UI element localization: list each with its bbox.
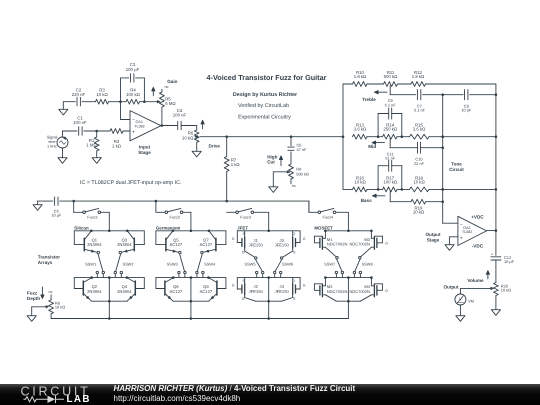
- svg-text:IC = TL082CP dual JFET-input o: IC = TL082CP dual JFET-input op-amp IC.: [80, 180, 182, 186]
- svg-text:500 kΩ: 500 kΩ: [384, 74, 399, 79]
- svg-text:Bass: Bass: [361, 198, 372, 203]
- svg-text:Fuzz3: Fuzz3: [240, 214, 251, 219]
- svg-text:10 kΩ: 10 kΩ: [96, 92, 108, 97]
- svg-text:AC127: AC127: [200, 289, 213, 294]
- svg-text:TL082: TL082: [134, 124, 144, 128]
- svg-text:2N3904: 2N3904: [117, 289, 132, 294]
- svg-text:Depth: Depth: [27, 296, 40, 301]
- svg-text:Fuzz2: Fuzz2: [169, 214, 180, 219]
- svg-text:2N3904: 2N3904: [117, 242, 132, 247]
- svg-text:100 nF: 100 nF: [173, 113, 187, 118]
- svg-text:Germanium: Germanium: [156, 225, 180, 230]
- svg-text:LAB: LAB: [67, 394, 91, 405]
- svg-text:nc: nc: [292, 183, 296, 188]
- svg-text:NDC7002N: NDC7002N: [327, 242, 348, 247]
- svg-text:3.6 kΩ: 3.6 kΩ: [413, 127, 426, 132]
- svg-text:SSW8: SSW8: [362, 262, 373, 267]
- svg-text:10 µF: 10 µF: [504, 259, 515, 264]
- svg-text:Output: Output: [425, 232, 441, 237]
- svg-text:47 nF: 47 nF: [297, 147, 308, 152]
- svg-text:250 kΩ: 250 kΩ: [383, 127, 398, 132]
- svg-text:Drive: Drive: [209, 143, 221, 148]
- svg-text:NDC7002N: NDC7002N: [349, 242, 370, 247]
- svg-text:Circuit: Circuit: [449, 167, 464, 172]
- svg-text:-VDC: -VDC: [472, 243, 484, 248]
- svg-text:10 kΩ: 10 kΩ: [501, 288, 511, 293]
- svg-text:4-Voiced Transistor Fuzz for G: 4-Voiced Transistor Fuzz for Guitar: [207, 73, 327, 82]
- svg-text:Stage: Stage: [138, 150, 151, 155]
- svg-text:220 nF: 220 nF: [72, 92, 86, 97]
- svg-text:+: +: [460, 235, 463, 241]
- svg-text:AC127: AC127: [170, 242, 183, 247]
- svg-text:Transistor: Transistor: [38, 255, 60, 260]
- svg-text:JFET: JFET: [237, 225, 248, 230]
- svg-text:Tone: Tone: [451, 161, 462, 166]
- svg-text:10 kΩ: 10 kΩ: [182, 135, 194, 140]
- svg-text:SSW7: SSW7: [324, 262, 335, 267]
- svg-text:G: G: [232, 284, 235, 288]
- svg-text:1.8 kΩ: 1.8 kΩ: [354, 74, 367, 79]
- svg-text:Fuzz1: Fuzz1: [87, 214, 98, 219]
- svg-text:10 kΩ: 10 kΩ: [413, 210, 425, 215]
- svg-text:Design by Kurtus Richter: Design by Kurtus Richter: [233, 92, 297, 98]
- svg-text:5.1 nF: 5.1 nF: [414, 108, 426, 113]
- svg-text:100 µF: 100 µF: [126, 67, 140, 72]
- svg-text:10 kΩ: 10 kΩ: [413, 179, 425, 184]
- svg-text:G: G: [385, 241, 388, 245]
- svg-text:Fuzz: Fuzz: [27, 290, 38, 295]
- svg-text:Treble: Treble: [362, 97, 376, 102]
- svg-text:51 nF: 51 nF: [385, 156, 396, 161]
- svg-text:nc: nc: [49, 289, 53, 294]
- svg-text:100 kΩ: 100 kΩ: [126, 92, 141, 97]
- svg-text:2N3904: 2N3904: [87, 289, 102, 294]
- svg-text:2N3904: 2N3904: [87, 242, 102, 247]
- svg-text:SSW1: SSW1: [85, 262, 96, 267]
- svg-text:NDC7002N: NDC7002N: [349, 289, 370, 294]
- svg-text:5.1 nF: 5.1 nF: [385, 102, 397, 107]
- svg-text:G: G: [303, 284, 306, 288]
- svg-text:Stage: Stage: [427, 238, 440, 243]
- svg-text:NDC7002N: NDC7002N: [327, 289, 348, 294]
- svg-text:TL082: TL082: [462, 230, 472, 234]
- svg-text:500 kΩ: 500 kΩ: [296, 171, 309, 176]
- svg-text:100 kΩ: 100 kΩ: [383, 179, 398, 184]
- svg-text:1 kΩ: 1 kΩ: [231, 162, 241, 167]
- svg-text:G: G: [232, 237, 235, 241]
- svg-text:Mid: Mid: [368, 144, 376, 149]
- svg-text:JFE150: JFE150: [275, 243, 290, 248]
- svg-text:Arrays: Arrays: [38, 260, 53, 265]
- svg-text:SSW6: SSW6: [282, 262, 293, 267]
- svg-text:D: D: [292, 232, 295, 236]
- svg-text:3.6 kΩ: 3.6 kΩ: [354, 127, 367, 132]
- svg-text:Output: Output: [443, 284, 459, 289]
- svg-text:22 nF: 22 nF: [414, 161, 425, 166]
- svg-text:JFE150: JFE150: [249, 289, 264, 294]
- svg-text:1.8 kΩ: 1.8 kΩ: [412, 74, 425, 79]
- svg-text:Experimental Circuitry: Experimental Circuitry: [238, 115, 291, 121]
- svg-text:Silicon: Silicon: [74, 225, 89, 230]
- svg-text:10 kΩ: 10 kΩ: [354, 179, 366, 184]
- svg-text:D: D: [242, 250, 245, 254]
- svg-text:+: +: [132, 130, 135, 136]
- svg-text:MOSFET: MOSFET: [314, 225, 333, 230]
- svg-text:+VDC: +VDC: [471, 215, 484, 220]
- svg-text:D: D: [292, 279, 295, 283]
- svg-text:SSW3: SSW3: [167, 262, 178, 267]
- svg-text:Input: Input: [139, 144, 151, 149]
- svg-text:SSW5: SSW5: [244, 262, 255, 267]
- svg-text:100 nF: 100 nF: [73, 120, 87, 125]
- svg-text:G: G: [385, 289, 388, 293]
- svg-text:SSW4: SSW4: [204, 262, 216, 267]
- svg-text:Verified by CircuitLab: Verified by CircuitLab: [238, 103, 289, 109]
- svg-text:AC127: AC127: [170, 289, 183, 294]
- svg-text:Gain: Gain: [167, 79, 177, 84]
- svg-text:Volume: Volume: [467, 278, 484, 283]
- svg-text:5 MΩ: 5 MΩ: [165, 101, 176, 106]
- svg-text:JFE150: JFE150: [275, 289, 290, 294]
- svg-text:Fuzz4: Fuzz4: [322, 214, 333, 219]
- svg-text:nc: nc: [165, 84, 169, 89]
- svg-text:AC127: AC127: [200, 242, 213, 247]
- svg-text:JFE150: JFE150: [249, 243, 264, 248]
- svg-text:1 kHz: 1 kHz: [47, 143, 57, 148]
- svg-text:10 pF: 10 pF: [461, 108, 472, 113]
- svg-text:Cut: Cut: [267, 159, 275, 164]
- svg-text:10 µF: 10 µF: [51, 213, 62, 218]
- svg-text:VM: VM: [468, 299, 474, 304]
- svg-text:SSW2: SSW2: [122, 262, 133, 267]
- svg-text:1 kΩ: 1 kΩ: [112, 143, 122, 148]
- svg-text:10 kΩ: 10 kΩ: [55, 305, 65, 310]
- svg-text:D: D: [242, 297, 245, 301]
- svg-text:G: G: [303, 237, 306, 241]
